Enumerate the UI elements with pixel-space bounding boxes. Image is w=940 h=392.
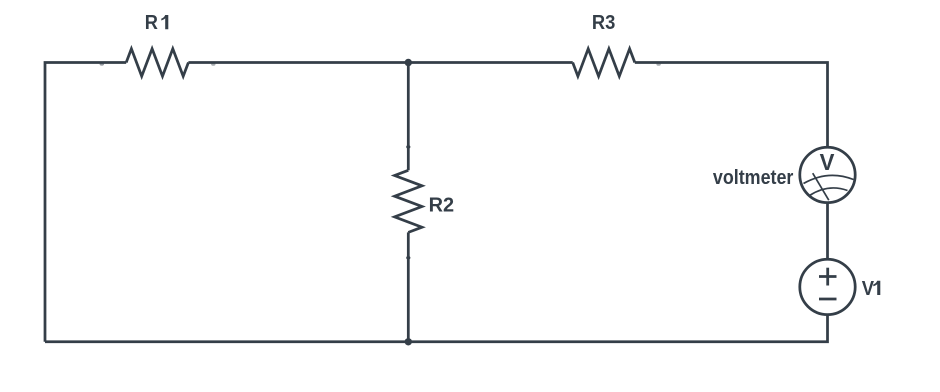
svg-text:R3: R3 — [592, 12, 616, 34]
svg-text:R: R — [145, 12, 159, 34]
svg-text:V: V — [862, 278, 875, 300]
terminal nub R3 right — [656, 63, 660, 66]
svg-text:V: V — [820, 149, 835, 175]
wire middle lower — [407, 232, 410, 341]
V1 plus sign — [819, 268, 837, 299]
V1 minus sign — [819, 298, 837, 301]
voltmeter U1 body — [800, 147, 855, 202]
wire top-right segment — [635, 63, 828, 148]
junction node top — [405, 59, 412, 66]
wire bottom rail — [45, 315, 828, 342]
resistor R2 — [395, 170, 422, 232]
wire top-middle segment — [188, 61, 572, 64]
terminal nub R1 left — [100, 63, 104, 66]
terminal nub R2 top — [406, 145, 410, 148]
resistor R1 — [126, 49, 188, 76]
voltage source V1 body — [800, 259, 855, 314]
wire voltmeter to V1 — [826, 203, 829, 260]
wire top-left segment — [45, 63, 126, 342]
voltmeter scale arcs and needle — [804, 173, 854, 200]
svg-text:R2: R2 — [429, 194, 455, 216]
svg-text:voltmeter: voltmeter — [713, 167, 794, 189]
terminal nub R2 bottom — [406, 256, 410, 259]
junction node bottom — [405, 338, 412, 345]
wire middle upper — [407, 63, 410, 171]
resistor R3 — [573, 49, 635, 76]
terminal nub R1 right — [211, 63, 215, 66]
